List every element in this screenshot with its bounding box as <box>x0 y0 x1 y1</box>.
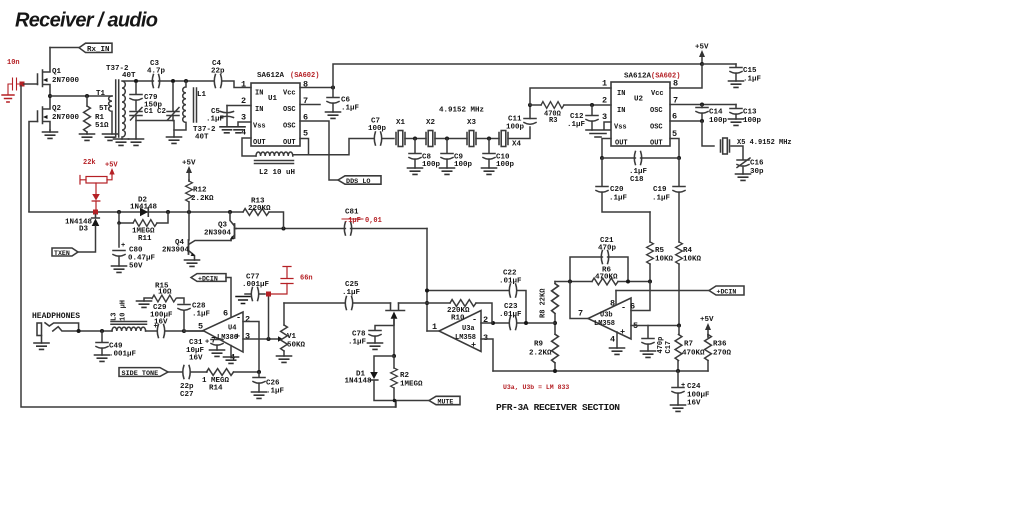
ground C78 <box>368 343 383 349</box>
wire main control line <box>29 212 284 229</box>
ground C8 <box>408 168 423 174</box>
ground red input <box>2 95 14 102</box>
ground V1 <box>277 356 292 362</box>
wire U2 pin7 OSC line <box>670 104 736 106</box>
capacitor C25 .1uF <box>284 302 344 304</box>
svg-text:.1μF: .1μF <box>348 339 367 347</box>
svg-text:2N7000: 2N7000 <box>52 114 80 122</box>
ground Q4 emitter <box>185 260 200 266</box>
ground C15 <box>729 81 744 87</box>
ground C9 <box>440 168 455 174</box>
node Q3 collector <box>228 210 232 214</box>
node C8 top <box>413 137 417 141</box>
node U3b pin5 / R4 R7 <box>677 324 681 328</box>
svg-text:R3: R3 <box>549 117 557 125</box>
svg-text:R11: R11 <box>138 235 152 243</box>
ground C2/L1 bottom <box>167 137 182 143</box>
node Q1/Q2 junction <box>48 94 52 98</box>
resistor R8 22K <box>554 282 556 284</box>
svg-text:+: + <box>681 382 685 390</box>
svg-text:OUT: OUT <box>283 139 296 147</box>
svg-text:+: + <box>620 327 625 337</box>
arrow V1 wiper <box>278 336 283 342</box>
svg-text:100p: 100p <box>709 117 728 125</box>
capacitor C21 470p feedback <box>570 257 628 282</box>
capacitor C81 <box>344 222 351 235</box>
ground R1 <box>80 134 95 140</box>
wire mute gate <box>375 319 394 356</box>
svg-text:C23: C23 <box>504 303 518 311</box>
svg-text:OSC: OSC <box>650 107 663 115</box>
svg-text:2N3904: 2N3904 <box>204 230 232 238</box>
svg-text:3: 3 <box>241 113 246 123</box>
svg-text:+: + <box>471 340 476 350</box>
wire U2 pin8 Vcc to +5V <box>670 64 702 88</box>
node antenna junction (red) <box>20 82 25 87</box>
svg-text:50V: 50V <box>129 263 143 271</box>
svg-text:R36: R36 <box>713 341 727 349</box>
wire X2 to X3 <box>435 138 467 140</box>
svg-text:220KΩ: 220KΩ <box>248 205 271 213</box>
svg-text:+: + <box>121 242 125 250</box>
svg-text:.01μF: .01μF <box>499 311 522 319</box>
svg-text:100p: 100p <box>454 161 473 169</box>
resistor R6 470K <box>592 278 618 285</box>
svg-text:10KΩ: 10KΩ <box>655 256 674 264</box>
svg-text:5T: 5T <box>99 105 109 113</box>
node L1 top <box>184 79 188 83</box>
svg-text:4: 4 <box>610 335 615 345</box>
tag +DCIN right <box>709 286 744 295</box>
node jack <box>77 329 81 333</box>
node C9 top <box>445 137 449 141</box>
svg-text:U3a: U3a <box>462 325 475 333</box>
svg-text:C81: C81 <box>345 209 359 217</box>
svg-text:10 μH: 10 μH <box>120 300 128 321</box>
svg-text:C2: C2 <box>157 108 167 116</box>
wire U4 pin3 to V1 wiper <box>243 338 279 340</box>
svg-text:10Ω: 10Ω <box>158 289 172 297</box>
svg-text:100μF: 100μF <box>687 392 710 400</box>
node C26 top <box>257 370 261 374</box>
svg-text:L1: L1 <box>197 91 207 99</box>
svg-text:PFR-3A RECEIVER SECTION: PFR-3A RECEIVER SECTION <box>496 402 620 413</box>
wire +5V rail top <box>333 64 702 88</box>
node R7 bottom / C24 <box>676 369 680 373</box>
svg-text:R5: R5 <box>655 247 665 255</box>
svg-text:.1μF: .1μF <box>344 217 361 225</box>
svg-text:66n: 66n <box>300 275 313 283</box>
wire L2 to crystal filter <box>293 139 374 155</box>
svg-text:470KΩ: 470KΩ <box>595 274 618 282</box>
svg-text:X5 4.9152 MHz: X5 4.9152 MHz <box>737 139 792 147</box>
node U1 Vcc <box>331 86 335 90</box>
svg-text:100p: 100p <box>422 161 441 169</box>
capacitor C8 100p <box>414 139 416 154</box>
trimmer C2 <box>167 83 179 121</box>
ground C1 bottom <box>129 139 144 145</box>
resistor R5 10K <box>649 212 651 242</box>
svg-text:2.2KΩ: 2.2KΩ <box>529 350 552 358</box>
wire top tuned line <box>136 81 251 88</box>
node R8/R9 junction <box>553 321 557 325</box>
svg-text:Rx_IN: Rx_IN <box>87 46 110 54</box>
diode D1 1N4148 <box>370 372 378 380</box>
svg-text:30p: 30p <box>750 168 764 176</box>
svg-text:.1μF: .1μF <box>342 289 361 297</box>
svg-text:R9: R9 <box>534 341 544 349</box>
wire C77 column <box>268 296 270 339</box>
resistor R12 2.2K <box>188 180 190 181</box>
wire X1 to X2 <box>405 138 426 140</box>
node R11 left bottom <box>117 221 121 225</box>
svg-text:U2: U2 <box>634 96 644 104</box>
resistor R13 220K <box>243 209 269 216</box>
capacitor 66n mod (red) <box>271 267 293 295</box>
resistor R2 1MEG <box>391 368 398 388</box>
svg-text:22k: 22k <box>83 159 96 167</box>
wire mute network rails <box>374 356 429 407</box>
svg-text:.1μF: .1μF <box>192 311 211 319</box>
svg-text:.01μF: .01μF <box>499 278 522 286</box>
svg-text:SA612A: SA612A <box>257 72 285 80</box>
tag TXEN <box>52 248 78 256</box>
wire X4 to C11 column <box>508 127 530 139</box>
svg-text:16V: 16V <box>154 319 168 327</box>
node zobel <box>182 329 186 333</box>
ground C31 <box>210 350 225 356</box>
wire U1 pin2 to C5 <box>227 105 251 107</box>
svg-text:100p: 100p <box>506 124 525 132</box>
svg-text:4.9152 MHz: 4.9152 MHz <box>439 107 484 115</box>
svg-text:.1μF: .1μF <box>652 195 671 203</box>
connector headphone jack <box>37 323 79 343</box>
svg-text:3: 3 <box>483 333 488 343</box>
capacitor C29 100uF <box>157 325 164 338</box>
node D3 top (red) <box>93 210 98 215</box>
svg-text:HEADPHONES: HEADPHONES <box>32 312 80 321</box>
tag MUTE <box>429 396 460 404</box>
inductor L2 10uH <box>255 152 294 164</box>
svg-text:IN: IN <box>617 90 625 98</box>
op-amp U3a LM358 <box>439 311 481 352</box>
svg-text:0,01: 0,01 <box>365 217 382 225</box>
wire U3a output stub <box>427 330 439 332</box>
wire +5V to C15 <box>702 63 736 65</box>
svg-text:R12: R12 <box>193 187 207 195</box>
svg-text:OSC: OSC <box>650 124 663 132</box>
svg-text:C18: C18 <box>630 176 644 184</box>
svg-text:MUTE: MUTE <box>438 398 454 405</box>
svg-text:R2: R2 <box>400 372 410 380</box>
svg-text:2: 2 <box>245 315 250 325</box>
transformer T1 secondary winding <box>122 81 136 139</box>
svg-text:C13: C13 <box>743 109 757 117</box>
resistor R36 270ohm <box>707 335 709 372</box>
power +5V arrow (red) <box>109 168 114 175</box>
crystal X5 <box>721 138 730 154</box>
svg-text:C80: C80 <box>129 247 143 255</box>
svg-text:0.47μF: 0.47μF <box>128 255 156 263</box>
resistor R9 2.2K <box>554 323 556 334</box>
potentiometer V1 50K <box>283 303 285 325</box>
node C14 top <box>700 103 704 107</box>
capacitor C24 100uF <box>677 371 679 387</box>
ground C6 <box>326 112 341 118</box>
svg-text:C6: C6 <box>341 97 351 105</box>
wire U3a pin3 to bus <box>481 339 493 371</box>
svg-text:22p: 22p <box>211 68 225 76</box>
svg-text:16V: 16V <box>687 400 701 408</box>
ground C13 <box>729 119 744 125</box>
node T1 top <box>134 79 138 83</box>
wire U3b pin6 <box>631 282 650 311</box>
trimmer C1 <box>130 108 142 121</box>
op-amp U3b LM358 <box>588 298 631 339</box>
svg-text:10KΩ: 10KΩ <box>683 256 702 264</box>
node R11/D2 left <box>117 210 121 214</box>
node U3a pin2 <box>491 321 495 325</box>
svg-text:IN: IN <box>617 107 625 115</box>
svg-text:LM358: LM358 <box>594 320 615 328</box>
svg-text:U3b: U3b <box>600 312 613 320</box>
capacitor C6 .1uF <box>332 88 334 98</box>
wire U2 pin3 Vss to ground <box>604 122 611 130</box>
svg-text:3: 3 <box>602 112 607 122</box>
node R13/main corner <box>282 227 286 231</box>
svg-text:470p: 470p <box>598 245 617 253</box>
svg-text:V1: V1 <box>287 333 297 341</box>
ground C77 <box>236 297 250 304</box>
node C19 top <box>677 156 681 160</box>
wire L3 to C29 <box>146 330 157 332</box>
svg-text:C24: C24 <box>687 383 701 391</box>
svg-text:2: 2 <box>602 96 607 106</box>
svg-text:SA612A: SA612A <box>624 73 652 81</box>
svg-text:Vcc: Vcc <box>283 90 296 98</box>
node C12 top <box>590 103 594 107</box>
svg-text:C17: C17 <box>665 341 673 354</box>
ground T1 secondary <box>114 139 129 145</box>
capacitor C11 100p <box>524 119 536 125</box>
resistor R11 1MEG <box>119 212 168 223</box>
transformer T1 primary winding <box>109 96 112 134</box>
ground C17 <box>641 351 656 357</box>
svg-text:OSC: OSC <box>283 123 296 131</box>
ground C16 <box>736 174 751 180</box>
svg-text:8: 8 <box>610 299 615 309</box>
capacitor C22 .01uF <box>509 284 516 297</box>
wire U2 pin1 line <box>530 88 611 105</box>
svg-text:100p: 100p <box>743 117 762 125</box>
svg-text:40T: 40T <box>122 72 136 80</box>
svg-text:C16: C16 <box>750 160 764 168</box>
svg-text:+: + <box>235 332 240 342</box>
svg-text:2N3904: 2N3904 <box>162 247 190 255</box>
resistor R10 220K <box>427 302 450 304</box>
transistor Q4 2N3904 <box>189 240 232 260</box>
wire X5 to C16 <box>731 146 743 159</box>
crystal X2 <box>426 131 435 147</box>
node C11 top <box>528 103 532 107</box>
wire U1 pin8 Vcc <box>300 87 333 89</box>
svg-text:C19: C19 <box>653 186 667 194</box>
wire C18 line <box>602 157 679 159</box>
svg-text:50KΩ: 50KΩ <box>287 342 306 350</box>
svg-text:470KΩ: 470KΩ <box>682 350 705 358</box>
node R9 bottom <box>553 369 557 373</box>
capacitor C4 22p <box>214 75 221 88</box>
svg-text:+DCIN: +DCIN <box>198 275 218 282</box>
svg-text:+DCIN: +DCIN <box>717 288 737 295</box>
wire U1 pin4 to L2 <box>242 138 256 156</box>
svg-text:R7: R7 <box>684 341 693 349</box>
svg-text:5: 5 <box>198 322 203 332</box>
inductor L3 10uH <box>111 322 147 332</box>
svg-text:-: - <box>621 303 626 313</box>
svg-text:-: - <box>472 315 477 325</box>
svg-text:+: + <box>205 339 209 347</box>
svg-text:OUT: OUT <box>253 139 266 147</box>
svg-text:2N7000: 2N7000 <box>52 77 80 85</box>
wire U4 pin2 <box>243 322 259 373</box>
svg-text:TXEN: TXEN <box>54 250 70 257</box>
crystal X3 <box>467 131 476 147</box>
wire U3b pin5 <box>631 325 679 327</box>
resistor R1 51ohm <box>86 96 88 134</box>
svg-text:7: 7 <box>578 309 583 319</box>
svg-text:X4: X4 <box>512 141 522 149</box>
wire U1 pin5 OUT stub <box>300 139 309 155</box>
wire U1 pin3 Vss to ground <box>238 122 251 126</box>
svg-text:R14: R14 <box>209 385 223 393</box>
svg-text:Vcc: Vcc <box>651 90 664 98</box>
svg-text:C27: C27 <box>180 391 194 399</box>
capacitor C20 .1uF <box>601 158 603 186</box>
capacitor C31 10uF <box>216 338 218 339</box>
resistor R4 10K <box>676 242 683 264</box>
transistor Q6 mute JFET <box>386 303 405 325</box>
wire R3 to U2 pin2 <box>564 104 611 106</box>
wire Q1 source to T1 <box>50 95 112 97</box>
ground C49 <box>95 355 110 361</box>
ground U3b pin4 <box>610 348 625 354</box>
svg-text:.1μF: .1μF <box>609 195 628 203</box>
svg-text:D3: D3 <box>79 226 89 234</box>
svg-text:4.7p: 4.7p <box>147 68 166 76</box>
node R12 bottom <box>187 210 191 214</box>
capacitor C3 4.7p <box>152 75 159 88</box>
svg-text:OUT: OUT <box>650 140 663 148</box>
capacitor C79 150p <box>135 83 137 94</box>
svg-text:SIDE TONE: SIDE TONE <box>122 370 159 378</box>
node pin3/C77 <box>267 337 271 341</box>
svg-text:.1μF: .1μF <box>266 388 285 396</box>
wire U3b pin8 to +DCIN line <box>615 291 617 305</box>
wire U3a input column <box>426 229 428 332</box>
svg-text:22p: 22p <box>180 383 194 391</box>
node C22/C23 junction <box>524 321 528 325</box>
wire jack to C49/L3 <box>79 330 112 332</box>
wire U3b output pin7 <box>570 282 588 319</box>
node C77 (red) <box>266 292 271 297</box>
capacitor C19 .1uF <box>678 158 680 186</box>
wire sidetone to C27 <box>168 371 182 373</box>
wire left rail from antenna node down and along bottom to mute net <box>21 86 396 407</box>
svg-text:X1: X1 <box>396 119 406 127</box>
wire U4 output pin5 <box>184 330 203 332</box>
ground Q2 source <box>49 130 51 132</box>
node R10 left <box>425 301 429 305</box>
svg-text:1: 1 <box>241 80 246 90</box>
capacitor C78 .1uF <box>369 331 381 337</box>
capacitor C5 .1uF <box>221 106 234 127</box>
diode D3 1N4148 <box>78 215 99 253</box>
transformer T1 core <box>116 80 119 137</box>
svg-text:1: 1 <box>602 79 607 89</box>
IC U1 SA612A <box>251 83 300 146</box>
ground C10 <box>482 168 497 174</box>
svg-text:C49: C49 <box>109 343 123 351</box>
svg-text:10n: 10n <box>7 59 20 67</box>
capacitor 10n input (red) <box>8 78 20 94</box>
node +5V rail <box>700 62 704 66</box>
svg-text:.001μF: .001μF <box>109 351 137 359</box>
power +5V arrow right <box>705 323 711 337</box>
node C10 top <box>487 137 491 141</box>
svg-text:270Ω: 270Ω <box>713 350 732 358</box>
wire sidetone injection line <box>236 228 427 230</box>
svg-text:C1: C1 <box>144 108 154 116</box>
node R5 bottom / pin6 <box>648 280 652 284</box>
diode D2 1N4148 <box>140 208 148 216</box>
svg-text:100p: 100p <box>368 125 387 133</box>
wire U3b pin4 to ground <box>616 332 618 348</box>
capacitor C15 .1uF <box>735 64 737 67</box>
tag +DCIN left <box>191 274 226 282</box>
svg-text:1N4148: 1N4148 <box>130 204 158 212</box>
svg-text:100p: 100p <box>496 161 515 169</box>
svg-text:L2 10 uH: L2 10 uH <box>259 169 295 177</box>
wire U3b feedback line <box>555 281 650 283</box>
svg-text:C22: C22 <box>503 270 517 278</box>
svg-text:Vss: Vss <box>614 124 627 132</box>
capacitor C14 100p <box>696 108 708 114</box>
ground C26 <box>252 392 267 398</box>
svg-text:5: 5 <box>303 129 308 139</box>
capacitor C12 .1uF <box>591 105 593 115</box>
tag SIDE_TONE <box>119 368 168 377</box>
node C49 <box>100 329 104 333</box>
svg-text:L3: L3 <box>111 313 119 321</box>
svg-text:R10: R10 <box>451 315 465 323</box>
svg-text:C15: C15 <box>743 67 757 75</box>
svg-text:C31: C31 <box>189 339 203 347</box>
svg-text:Q1: Q1 <box>52 68 62 76</box>
svg-text:+5V: +5V <box>700 316 714 324</box>
ground U2 Vss / C12 shared <box>586 130 610 137</box>
svg-text:.1μF: .1μF <box>567 121 586 129</box>
node C20 top <box>600 156 604 160</box>
ground U4 pin4 <box>224 357 239 363</box>
svg-text:C14: C14 <box>709 109 723 117</box>
svg-text:5: 5 <box>672 129 677 139</box>
svg-text:2.2KΩ: 2.2KΩ <box>191 195 214 203</box>
svg-text:C26: C26 <box>266 380 280 388</box>
ground U1 Vss / C5 shared <box>220 127 245 133</box>
resistor R15 10ohm <box>144 298 184 331</box>
capacitor C26 .1uF <box>258 372 260 377</box>
